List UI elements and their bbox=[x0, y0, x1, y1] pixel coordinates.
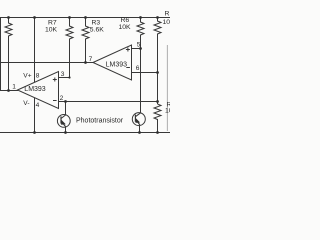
junction top rail / pin 8 wire bbox=[33, 16, 36, 19]
svg-text:4: 4 bbox=[36, 102, 40, 109]
resistor left pull-up bbox=[5, 18, 12, 91]
junction top rail / R3 bbox=[84, 16, 87, 19]
wire pin 2 net bbox=[59, 101, 158, 103]
junction bottom rail / R4 bbox=[156, 131, 159, 134]
junction top rail / R6 bbox=[139, 16, 142, 19]
wire pin 3 bbox=[59, 77, 70, 79]
junction top rail / R7 bbox=[68, 16, 71, 19]
minus mark pin6 bbox=[126, 67, 130, 69]
svg-text:R7: R7 bbox=[48, 19, 57, 26]
wire pin 6 bbox=[132, 72, 158, 74]
resistor R6 bbox=[137, 18, 144, 49]
arrow Q1 emitter bbox=[61, 120, 66, 125]
svg-text:10: 10 bbox=[165, 107, 170, 114]
svg-text:3: 3 bbox=[61, 71, 65, 78]
plus mark pin5 bbox=[126, 49, 130, 51]
junction top rail / left pull-up resistor bbox=[7, 16, 10, 19]
svg-text:LM393: LM393 bbox=[106, 61, 128, 68]
svg-text:Phototransistor: Phototransistor bbox=[76, 118, 124, 125]
wire pin 5 bbox=[132, 48, 141, 50]
minus mark pin2 bbox=[53, 100, 57, 102]
svg-text:6: 6 bbox=[136, 65, 140, 72]
resistor R4 bbox=[154, 104, 161, 133]
wire right edge faint vertical bbox=[166, 45, 168, 131]
op-amp U1A triangle bbox=[18, 72, 59, 109]
resistor R5 bbox=[154, 18, 161, 105]
wire left edge vertical bbox=[0, 18, 2, 91]
svg-text:10K: 10K bbox=[45, 27, 58, 34]
svg-text:1: 1 bbox=[12, 83, 16, 90]
junction bottom rail / Q2 emitter bbox=[138, 131, 141, 134]
junction pin 2 / Q1 collector bbox=[64, 100, 67, 103]
junction output 1 / pull-up bbox=[7, 89, 10, 92]
wire pin 4 V- bbox=[34, 98, 36, 133]
svg-text:5.6K: 5.6K bbox=[90, 27, 104, 34]
op-amp U1B triangle bbox=[93, 45, 132, 80]
junction top rail / R5 bbox=[156, 16, 159, 19]
svg-text:10: 10 bbox=[163, 19, 171, 26]
arrow Q2 emitter bbox=[136, 118, 141, 123]
plus mark pin3 bbox=[53, 79, 57, 81]
wire output pin1 bbox=[0, 90, 18, 92]
junction bottom rail / pin 4 wire bbox=[33, 131, 36, 134]
svg-text:10K: 10K bbox=[119, 24, 132, 31]
junction pin 2 net / R4 bbox=[156, 100, 159, 103]
svg-text:2: 2 bbox=[60, 95, 64, 102]
svg-text:R: R bbox=[165, 11, 170, 18]
wire output pin 7 bbox=[0, 62, 93, 64]
svg-text:5: 5 bbox=[137, 41, 141, 48]
svg-text:V-: V- bbox=[23, 100, 29, 107]
wire bottom ground rail bbox=[0, 132, 170, 134]
junction pin 5 / R6 / Q2 collector bbox=[139, 47, 142, 50]
junction bottom rail / Q1 emitter bbox=[64, 131, 67, 134]
wire pin 8 V+ bbox=[34, 18, 36, 83]
wire phototransistor Q2 collector bbox=[140, 49, 142, 113]
wire top supply rail bbox=[0, 17, 170, 19]
svg-text:LM393: LM393 bbox=[24, 86, 46, 93]
phototransistor Q1 bbox=[57, 115, 70, 128]
junction pin 3 / R7 bbox=[68, 76, 70, 78]
svg-text:R3: R3 bbox=[92, 19, 101, 26]
phototransistor Q2 bbox=[132, 113, 145, 126]
resistor R3 bbox=[82, 18, 89, 63]
resistor R7 bbox=[66, 18, 73, 78]
junction output 7 / R3 bbox=[84, 61, 87, 64]
junction pin 6 / R5 bbox=[156, 71, 159, 74]
svg-text:7: 7 bbox=[89, 56, 93, 63]
svg-text:8: 8 bbox=[36, 73, 40, 80]
svg-text:V+: V+ bbox=[23, 73, 31, 80]
